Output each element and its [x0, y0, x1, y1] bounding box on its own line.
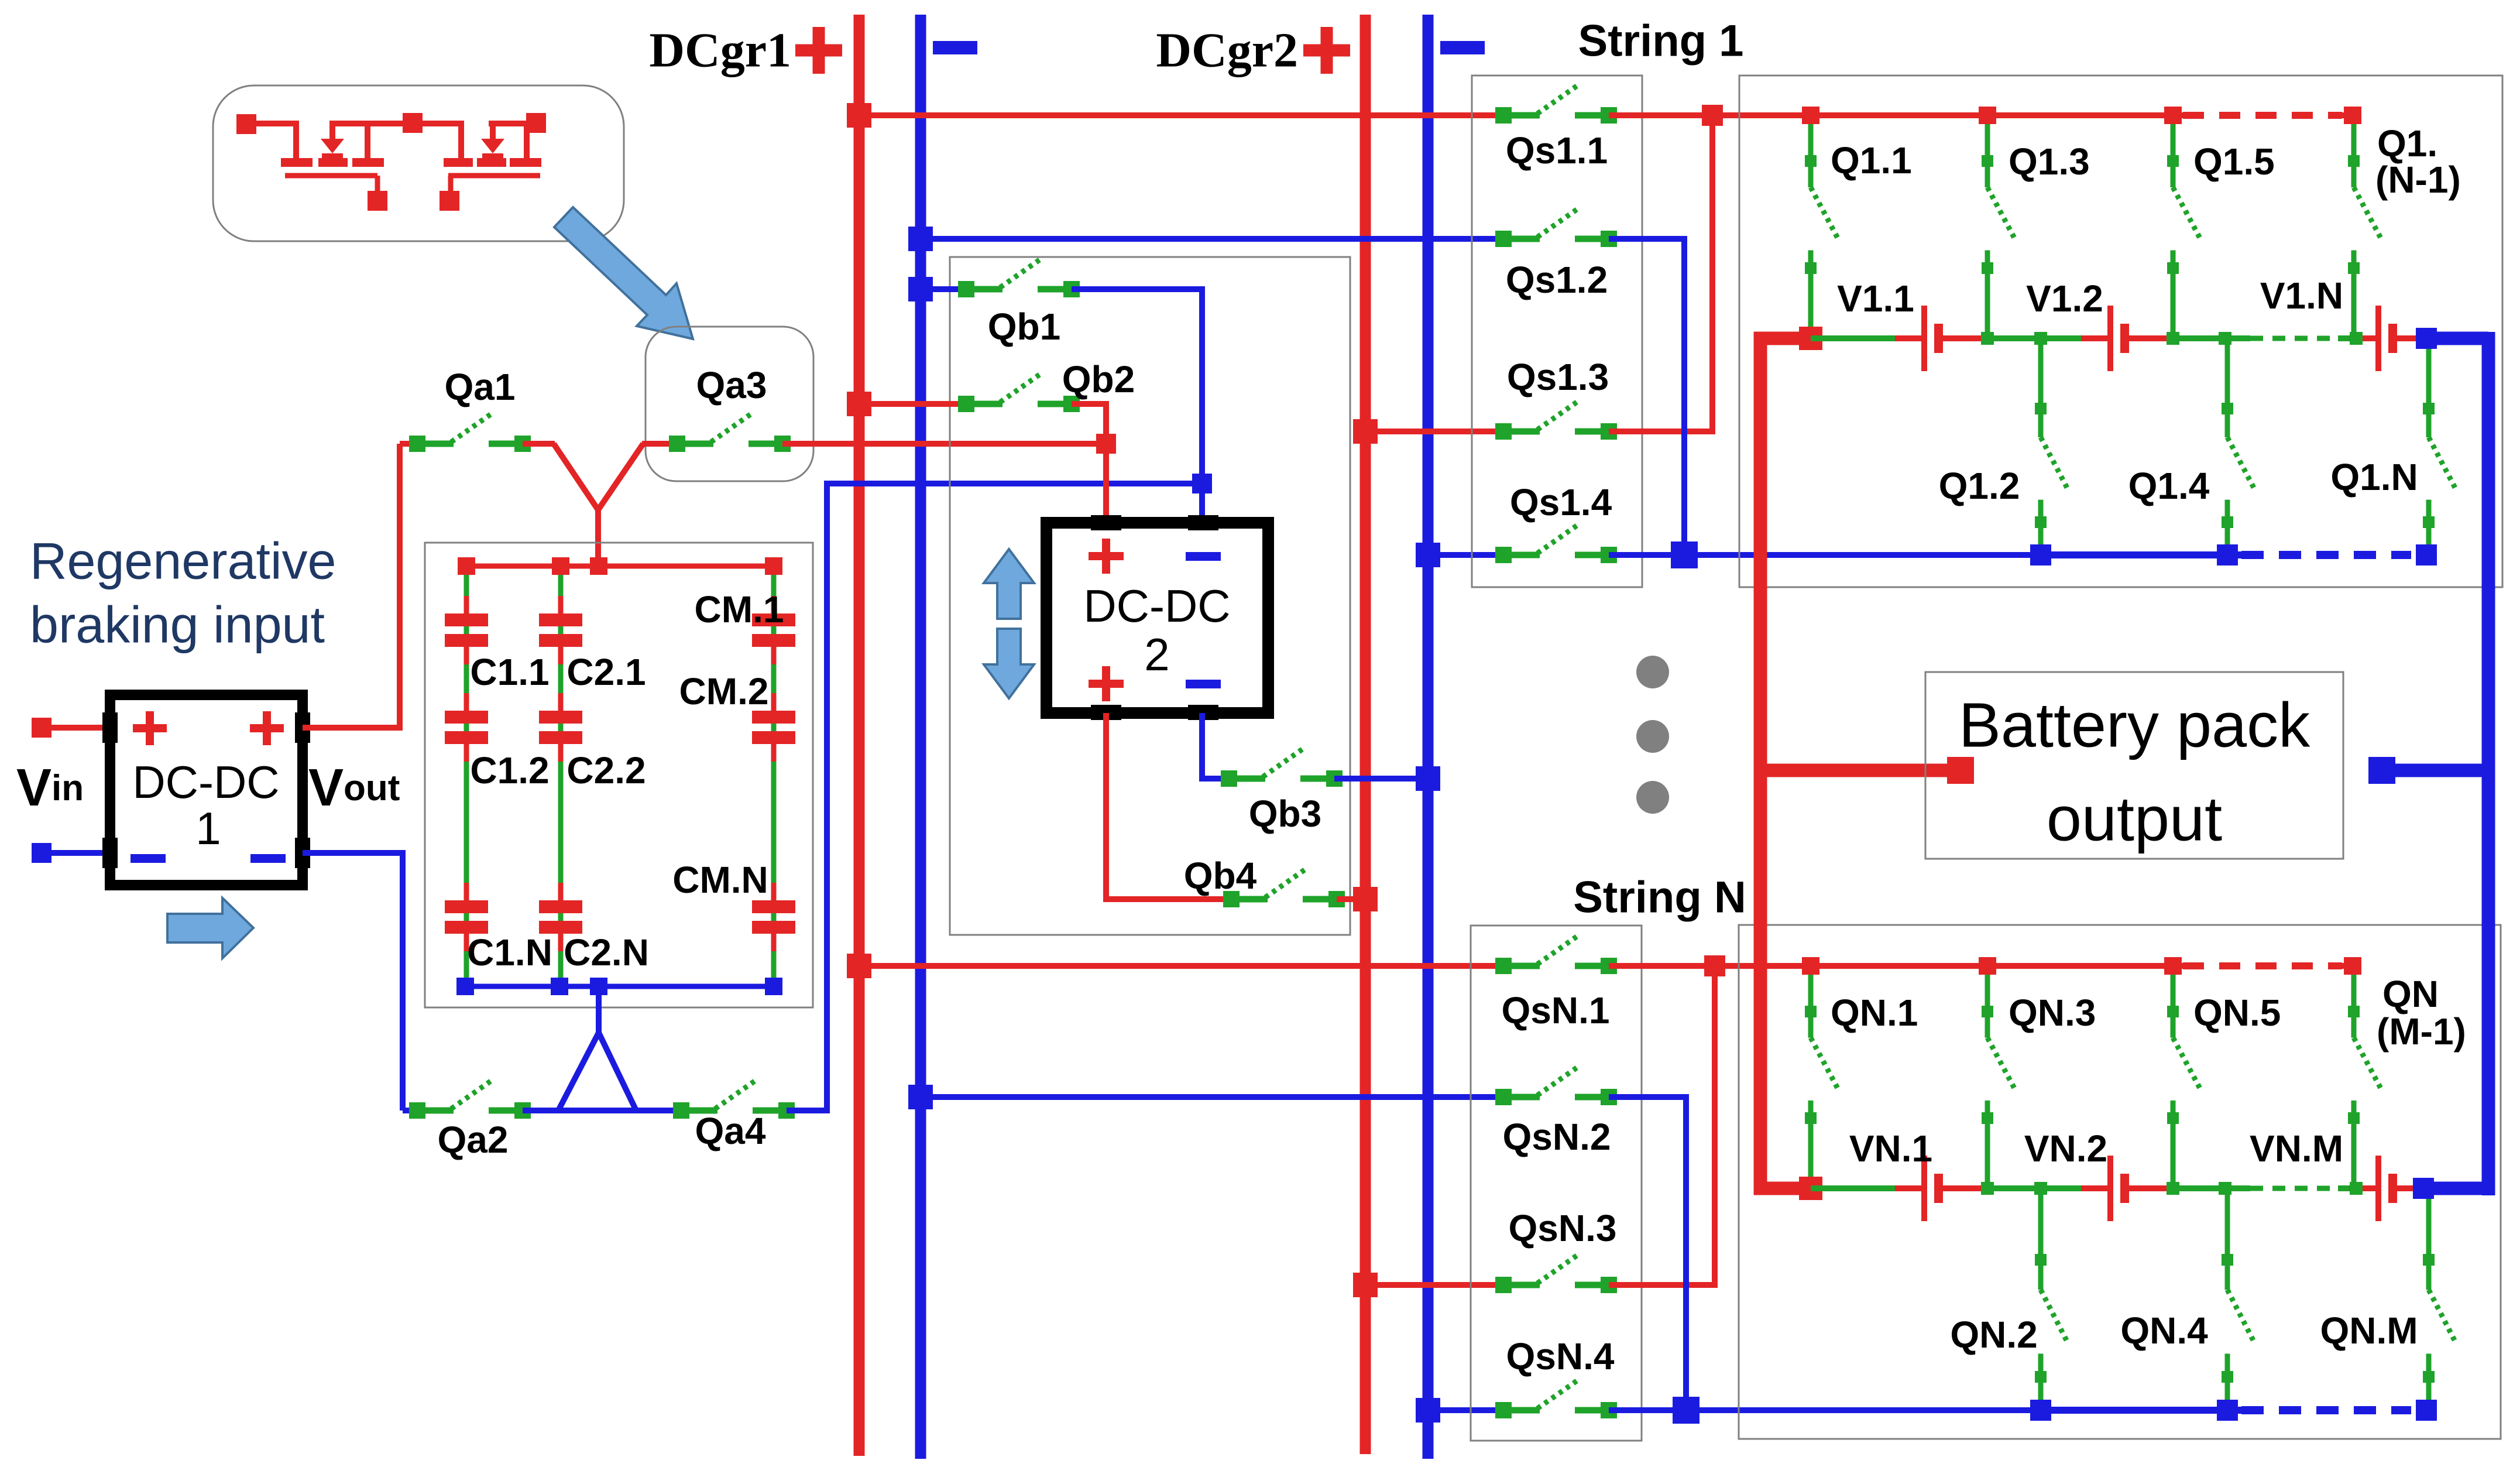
arrow down beside DC-DC2 [984, 629, 1034, 698]
svg-text:V1.N: V1.N [2260, 275, 2343, 317]
pin DC-DC2 bot- tab [1188, 705, 1218, 720]
label QsN.3 [1509, 1207, 1617, 1249]
svg-text:Qb1: Qb1 [988, 306, 1060, 348]
label C2.2 [567, 749, 646, 791]
label regenerative braking input [30, 532, 336, 654]
battery VN.1 [1895, 1156, 1984, 1221]
svg-text:Vin: Vin [16, 759, 84, 817]
switch QN.M [2423, 1188, 2456, 1410]
wire Qa1 to V-tap [523, 441, 555, 447]
node cap bottom C1 [456, 978, 474, 995]
wire DCgr1- blue bus [915, 15, 926, 1459]
label Qb4 [1184, 855, 1257, 897]
label V1.2 [2026, 277, 2103, 320]
wire stringN top rail [1811, 963, 2183, 969]
label Q1.4 [2128, 465, 2210, 507]
wire DCgr1+ red bus [854, 15, 865, 1456]
wire Vout+ riser [303, 444, 400, 728]
node bus junction Qb3 [1416, 766, 1440, 791]
wire Qa2 to Qa4 [523, 1108, 681, 1113]
node string1 rail node x3487 [2034, 332, 2047, 345]
switch Q1.N [2423, 338, 2456, 555]
node string1 rail node x3802 [2219, 332, 2231, 345]
label QsN.2 [1503, 1116, 1611, 1158]
label String 1 [1578, 16, 1744, 66]
net label DCgr1 minus [933, 41, 977, 54]
wire inset top rail segment A [246, 121, 296, 126]
node string1 rail end [2416, 328, 2437, 349]
node stringN bottom node 2 [2217, 1400, 2238, 1421]
node string1 bottom node end [2416, 544, 2437, 565]
svg-text:QsN.3: QsN.3 [1509, 1207, 1617, 1249]
switch Qs1.3 [1495, 401, 1617, 440]
label DC-DC2 bot minus [1186, 680, 1221, 688]
svg-text:Regenerative: Regenerative [30, 532, 336, 590]
svg-text:Qa4: Qa4 [695, 1110, 766, 1152]
node inset gate terminal G2 [440, 191, 459, 211]
label Q1.N [2330, 456, 2418, 498]
switch QsN.1 [1495, 935, 1617, 974]
svg-text:C2.2: C2.2 [567, 749, 646, 791]
label VN.M [2250, 1127, 2343, 1170]
switch QsN.4 [1495, 1380, 1617, 1418]
node string1 rail feed junction [1799, 327, 1822, 350]
transistor Q-left contact bars [281, 158, 384, 167]
switch Qb1 [958, 259, 1080, 297]
node Vin- terminal [32, 843, 52, 863]
wire cap bank bottom tap Y [558, 986, 636, 1110]
label VN.2 [2024, 1127, 2107, 1170]
svg-text:DCgr1: DCgr1 [649, 23, 791, 78]
wire feeder QsN.1 [859, 963, 1503, 969]
wire Qb3 to blue bus [1334, 776, 1428, 782]
node cap bottom C2 [551, 978, 568, 995]
label QN.(M-1) [2377, 973, 2466, 1053]
wire string1 bottom rail dashed [2241, 551, 2411, 559]
pin DC-DC2 top+ tab [1091, 515, 1121, 530]
node stringN rail node x4026 [2350, 1182, 2363, 1195]
node stringN top junction x4020 [2344, 957, 2361, 975]
label Q1.5 [2193, 140, 2275, 183]
svg-text:DC-DC: DC-DC [1083, 580, 1230, 632]
wire stringN bottom rail dashed [2241, 1406, 2411, 1414]
label DC-DC1 in plus [133, 711, 167, 745]
switch Q1.4 [2222, 338, 2255, 555]
switch QsN.2 [1495, 1067, 1617, 1105]
switch QN.3 [1982, 966, 2015, 1188]
svg-text:C2.1: C2.1 [567, 651, 646, 693]
pin DC-DC1 in- tab [102, 838, 118, 868]
node junction plus drop [1096, 434, 1116, 454]
node pack output minus terminal [2368, 757, 2395, 784]
wire pack plus branch [1760, 764, 1949, 777]
wire Qs1.2 drop [1609, 239, 1684, 555]
svg-text:DC-DC: DC-DC [132, 756, 279, 808]
svg-text:Qs1.3: Qs1.3 [1507, 356, 1609, 398]
svg-text:Q1.1: Q1.1 [1831, 139, 1912, 181]
svg-text:Qs1.2: Qs1.2 [1506, 259, 1608, 301]
node bus junction Qb2 [847, 392, 871, 416]
wire Vout- riser [303, 853, 403, 1110]
node string1 rail node x4026 [2350, 332, 2363, 345]
capacitor C2.2 [539, 693, 582, 762]
label String N [1573, 873, 1746, 923]
switch Qb3 [1221, 748, 1343, 787]
transistor Q-right source lead [524, 121, 530, 162]
node string1 rail node x3713 [2167, 332, 2179, 345]
label VN.1 [1849, 1127, 1932, 1170]
svg-text:braking input: braking input [30, 596, 325, 654]
transistor Q-right gate [448, 176, 540, 194]
svg-text:CM.1: CM.1 [695, 588, 784, 630]
wire bus to Qb2 [859, 401, 966, 407]
battery VN.2 [2081, 1156, 2170, 1221]
wire QsN.1 to battery box [1609, 963, 1811, 969]
net label DCgr2 minus [1440, 41, 1485, 54]
node string1 top junction x3396 [1979, 107, 1996, 124]
callout box MOSFET pair detail [213, 85, 624, 241]
label C1.1 [470, 651, 549, 693]
svg-text:Qa2: Qa2 [438, 1119, 509, 1161]
node string1 rail node x3396 [1981, 332, 1994, 345]
label QsN.1 [1502, 989, 1610, 1031]
wire Qa top red [400, 441, 417, 447]
wire string1 rail green segs [1811, 335, 2367, 341]
svg-text:C1.N: C1.N [467, 931, 552, 974]
switch Qa1 [409, 413, 531, 452]
switch QN.2 [2035, 1188, 2068, 1410]
svg-text:Q1.3: Q1.3 [2009, 140, 2090, 183]
label Vout [308, 759, 400, 817]
svg-text:QN.4: QN.4 [2120, 1310, 2208, 1352]
node cap top C1 [458, 557, 475, 575]
wire Qs1.3 riser [1609, 115, 1712, 431]
wire DCgr2+ red bus [1360, 15, 1371, 1454]
transistor Q-right contact bars [444, 158, 541, 167]
label QN.4 [2120, 1310, 2208, 1352]
svg-text:Q1.5: Q1.5 [2193, 140, 2275, 183]
label Qa1 [445, 366, 516, 408]
label Qa4 [695, 1110, 766, 1152]
svg-text:Qs1.4: Qs1.4 [1510, 481, 1612, 523]
label Qb3 [1249, 793, 1321, 835]
label QN.M [2320, 1310, 2418, 1352]
box stringN switches [1471, 926, 1642, 1441]
svg-text:Q1.N: Q1.N [2330, 456, 2418, 498]
wire Qs1.1 to battery box [1609, 112, 1811, 118]
label DC-DC1 out minus [250, 854, 286, 863]
svg-text:Qb2: Qb2 [1062, 358, 1135, 400]
wire inset top rail segment C [489, 121, 536, 126]
label QN.5 [2193, 992, 2281, 1034]
transistor Q-left gate [285, 176, 377, 194]
label Qs1.2 [1506, 259, 1608, 301]
svg-text:CM.N: CM.N [672, 859, 768, 901]
svg-text:QN.3: QN.3 [2009, 992, 2096, 1034]
node string1 top junction x3094 [1802, 107, 1819, 124]
wire Vin- to DC-DC1 [52, 850, 110, 856]
wire Qa3 to DC-DC2 [782, 441, 1106, 447]
node stringN rail feed junction [1799, 1177, 1822, 1200]
wire Vin+ to DC-DC1 [52, 725, 110, 731]
node stringN bottom node 1 [2030, 1400, 2051, 1421]
svg-text:C1.1: C1.1 [470, 651, 549, 693]
wire feeder Qs1.1 [859, 112, 1503, 118]
label Qa2 [438, 1119, 509, 1161]
battery V1.N [2349, 306, 2419, 371]
node string1 top junction x4020 [2344, 107, 2361, 124]
svg-text:(N-1): (N-1) [2375, 159, 2461, 201]
svg-text:QN.5: QN.5 [2193, 992, 2281, 1034]
svg-text:CM.2: CM.2 [679, 670, 769, 712]
node bus junction string1 minus [908, 227, 933, 251]
switch Q1.1 [1805, 115, 1838, 338]
capacitor C1.2 [445, 693, 488, 762]
node stringN rail node x3487 [2034, 1182, 2047, 1195]
wire QsN.4 to battery box [1609, 1407, 2041, 1413]
node bus junction QsN.4 [1416, 1398, 1440, 1423]
switch Qa2 [409, 1080, 531, 1119]
svg-text:QN.2: QN.2 [1950, 1314, 2037, 1356]
wire string1 top rail dashed [2183, 112, 2342, 119]
svg-text:String 1: String 1 [1578, 16, 1744, 66]
node bus junction string1 plus [847, 103, 871, 128]
svg-text:QsN.2: QsN.2 [1503, 1116, 1611, 1158]
wire feeder Qs1.4 [1428, 552, 1503, 558]
node inset terminal B [403, 113, 423, 133]
wire feeder Qs1.3 [1365, 429, 1503, 434]
pin DC-DC1 out+ tab [295, 712, 310, 743]
node stringN top junction x3713 [2164, 957, 2182, 975]
label Qb2 [1062, 358, 1135, 400]
pin DC-DC2 bot+ tab [1091, 705, 1121, 720]
label DC-DC1 in minus [131, 854, 166, 863]
wire pack plus thick red [1760, 338, 1806, 1188]
node stringN rail node x3713 [2167, 1182, 2179, 1195]
wire string1 top rail end [2342, 112, 2353, 118]
node stringN rail end [2413, 1178, 2434, 1199]
net label DCgr2 plus [1303, 27, 1350, 74]
svg-text:DCgr2: DCgr2 [1156, 23, 1298, 78]
svg-text:Q1.4: Q1.4 [2128, 465, 2210, 507]
battery V1.2 [2081, 306, 2170, 371]
node string1 bottom node 1 [2030, 544, 2051, 565]
node bus junction QsN.3 [1353, 1273, 1378, 1297]
converter U1 DC-DC 1 box [110, 695, 303, 885]
pin DC-DC2 top- tab [1188, 515, 1218, 530]
capacitor C2.1 [539, 596, 582, 664]
arrow inset to Qa3 [554, 207, 693, 339]
arrow right below DC-DC1 [167, 898, 253, 958]
wire Qa bottom left [403, 1108, 417, 1113]
pin DC-DC1 in+ tab [102, 712, 118, 743]
wire Qb1 to DC-DC2 minus [1072, 289, 1202, 523]
wire pack minus branch [2395, 764, 2488, 777]
svg-text:QsN.1: QsN.1 [1502, 989, 1610, 1031]
wire Qa4 riser to DC-DC2 [787, 484, 1202, 1110]
svg-text:QsN.4: QsN.4 [1506, 1335, 1615, 1377]
svg-text:Qa1: Qa1 [445, 366, 516, 408]
wire feeder QsN.2 [921, 1094, 1503, 1100]
wire string1 top rail [1811, 112, 2183, 118]
node string1 bottom node 2 [2217, 544, 2238, 565]
svg-text:C1.2: C1.2 [470, 749, 549, 791]
label C1.N [467, 931, 552, 974]
pin DC-DC1 out- tab [295, 838, 310, 868]
wire QsN.2 drop [1609, 1097, 1686, 1410]
node cap bottom tap [590, 978, 607, 995]
svg-text:Battery pack: Battery pack [1959, 690, 2310, 760]
node bus junction Qs1.4 [1416, 543, 1440, 567]
node inset terminal C [526, 113, 546, 133]
node bus junction Qb1 [908, 277, 933, 301]
wire Qb4 to red bus [1337, 896, 1365, 902]
transistor Q-left body diode [321, 121, 344, 158]
label V1.1 [1837, 277, 1914, 320]
node junction QsN.2 drop [1673, 1397, 1700, 1424]
switch Q1.2 [2035, 338, 2068, 555]
node stringN rail node x3802 [2219, 1182, 2231, 1195]
label Q1.(N-1) [2375, 122, 2461, 201]
label V1.N [2260, 275, 2343, 317]
svg-text:VN.M: VN.M [2250, 1127, 2343, 1170]
wire string1 bottom rail [2041, 551, 2241, 558]
wire pack minus thick blue [2482, 332, 2495, 1195]
svg-text:1: 1 [195, 803, 221, 854]
switch QN.1 [1805, 966, 1838, 1188]
node cap bottom CM [765, 978, 782, 995]
svg-text:Qs1.1: Qs1.1 [1506, 129, 1608, 172]
svg-text:VN.2: VN.2 [2024, 1127, 2107, 1170]
svg-text:Qb4: Qb4 [1184, 855, 1257, 897]
node junction QsN.3 riser [1704, 955, 1725, 976]
svg-text:output: output [2047, 783, 2222, 854]
wire stringN top rail end [2342, 963, 2353, 969]
node stringN top junction x3094 [1802, 957, 1819, 975]
svg-text:V1.1: V1.1 [1837, 277, 1914, 320]
wire cap bank bottom rail [465, 984, 774, 989]
svg-text:C2.N: C2.N [564, 931, 649, 974]
node stringN rail node x3396 [1981, 1182, 1994, 1195]
node bus junction Qb4 [1353, 887, 1378, 911]
box battery string1 [1739, 76, 2502, 587]
switch QN.4 [2222, 1188, 2255, 1410]
net label DCgr1 [649, 23, 791, 78]
node stringN bottom node end [2416, 1400, 2437, 1421]
svg-text:VN.1: VN.1 [1849, 1127, 1932, 1170]
label Q1.3 [2009, 140, 2090, 183]
label DC-DC2 top plus [1089, 539, 1124, 574]
wire feeder QsN.3 [1365, 1282, 1503, 1288]
node cap top C2 [552, 557, 569, 575]
label DC-DC2 name [1083, 580, 1230, 680]
label Qs1.1 [1506, 129, 1608, 172]
svg-text:(M-1): (M-1) [2377, 1010, 2466, 1053]
node inset gate terminal G1 [368, 191, 387, 211]
capacitor C1.1 [445, 596, 488, 664]
svg-text:V1.2: V1.2 [2026, 277, 2103, 320]
svg-text:Qb3: Qb3 [1249, 793, 1321, 835]
switch Qb4 [1223, 869, 1345, 907]
node pack output plus terminal [1947, 757, 1974, 784]
node stringN top junction x3396 [1979, 957, 1996, 975]
wire C2 column [558, 566, 564, 986]
wire string1 rail dashed [2250, 336, 2338, 341]
label DC-DC2 bot plus [1089, 666, 1124, 701]
node cap top CM [765, 557, 782, 575]
label Q1.1 [1831, 139, 1912, 181]
wire QsN.3 riser [1609, 966, 1715, 1285]
capacitor CM.1 [752, 596, 795, 664]
label Qs1.4 [1510, 481, 1612, 523]
label Vin [16, 759, 84, 817]
switch QN.(M-1) [2348, 966, 2381, 1188]
switch Qs1.1 [1495, 85, 1617, 124]
wire feeder Qs1.2 [921, 236, 1503, 242]
switch QsN.3 [1495, 1255, 1617, 1293]
wire Qs1.4 to battery box [1609, 552, 2041, 558]
node bus junction Qs1.3 [1353, 419, 1378, 444]
box string1 switches [1472, 76, 1642, 587]
svg-text:QN.M: QN.M [2320, 1310, 2418, 1352]
box capacitor bank [425, 543, 813, 1007]
label CM.N [672, 859, 768, 901]
label QN.3 [2009, 992, 2096, 1034]
node junction minus drop [1192, 474, 1212, 493]
node string1 top junction x3713 [2164, 107, 2182, 124]
switch Qa4 [673, 1080, 795, 1119]
wire feeder QsN.4 [1428, 1407, 1503, 1413]
label C2.1 [567, 651, 646, 693]
label DC-DC1 name [132, 756, 279, 854]
net label DCgr2 [1156, 23, 1298, 78]
svg-text:2: 2 [1144, 629, 1169, 680]
wire DCgr2- blue bus [1423, 15, 1434, 1459]
ellipsis dots between strings [1636, 656, 1669, 814]
wire CM column [771, 566, 777, 986]
label QN.1 [1831, 992, 1918, 1034]
wire DC-DC2 minus to Qb3 [1202, 713, 1229, 779]
label Qs1.3 [1507, 356, 1609, 398]
arrow up beside DC-DC2 [984, 549, 1034, 619]
switch Q1.5 [2167, 115, 2200, 338]
switch Qa3 [669, 413, 791, 452]
box battery pack output [1925, 672, 2343, 859]
wire stringN rail dashed [2250, 1186, 2338, 1191]
transistor Q-right body diode [481, 121, 504, 158]
converter U2 DC-DC 2 box [1046, 523, 1268, 713]
wire stringN bottom rail [2041, 1407, 2241, 1414]
box DC-DC2 group [950, 257, 1350, 935]
node junction Qs1.2 drop [1671, 541, 1698, 568]
node Vin+ terminal [32, 718, 52, 738]
label DC-DC1 out plus [250, 711, 284, 745]
node bus junction stringN minus [908, 1085, 933, 1109]
label Qb1 [988, 306, 1060, 348]
wire stringN top rail dashed [2183, 962, 2342, 969]
wire C1 column [464, 566, 469, 986]
svg-text:Q1.2: Q1.2 [1939, 465, 2020, 507]
label battery pack output [1959, 690, 2310, 854]
label C2.N [564, 931, 649, 974]
transistor Q-left drain lead [293, 121, 299, 162]
callout box around Qa3 [646, 327, 813, 481]
net label DCgr1 plus [795, 27, 842, 74]
wire DC-DC2 plus to Qb4 [1106, 713, 1231, 899]
battery V1.1 [1895, 306, 1984, 371]
capacitor CM.N [752, 883, 795, 951]
svg-text:String N: String N [1573, 873, 1746, 923]
